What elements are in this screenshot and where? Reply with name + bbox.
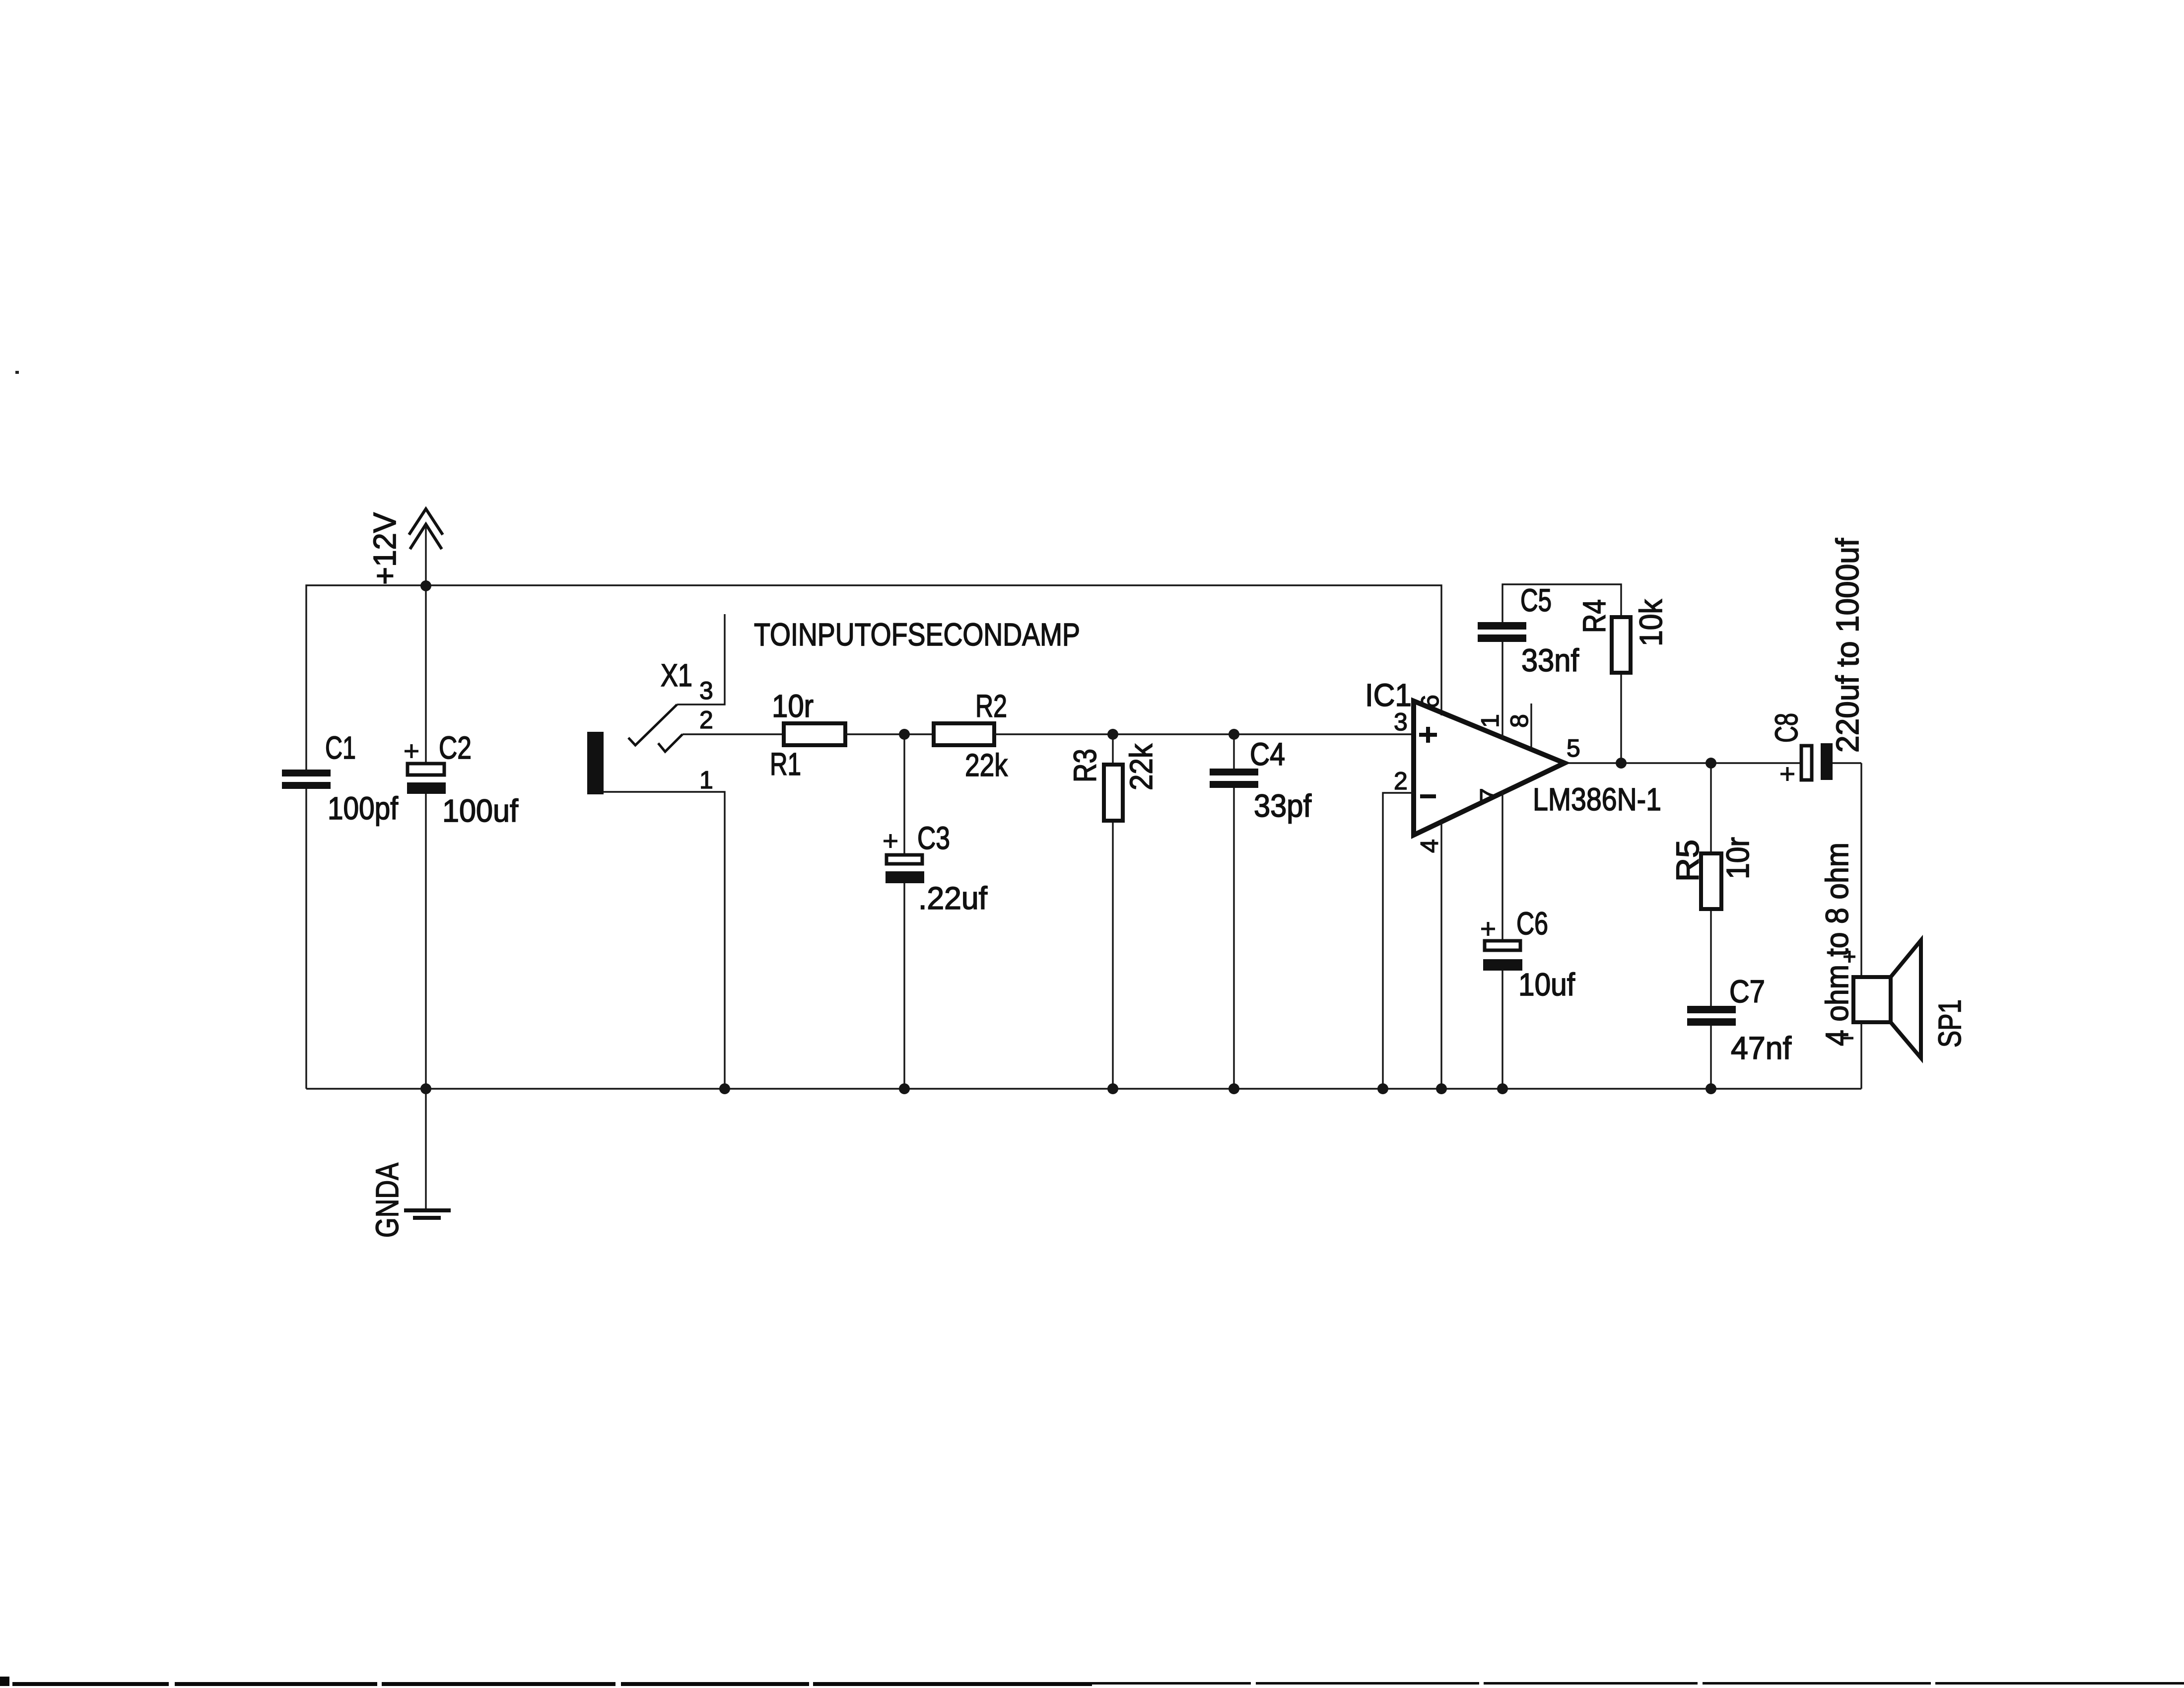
capacitor C3 bbox=[884, 734, 924, 1089]
wire bottom ground rail bbox=[306, 1088, 1861, 1089]
svg-text:R4: R4 bbox=[1576, 599, 1612, 633]
plus marker non-inverting input bbox=[1419, 727, 1437, 743]
op-amp IC1 bbox=[1414, 701, 1565, 835]
svg-text:7: 7 bbox=[1475, 788, 1503, 802]
wire R2 to IC pin3 bbox=[994, 733, 1414, 735]
svg-text:8: 8 bbox=[1505, 714, 1533, 728]
svg-text:1: 1 bbox=[699, 766, 713, 794]
wire R1 to R2 bbox=[845, 733, 934, 735]
svg-text:33pf: 33pf bbox=[1254, 788, 1311, 824]
wire to speaker bbox=[1860, 763, 1862, 977]
capacitor C4 bbox=[1210, 729, 1258, 1094]
svg-text:LM386N-1: LM386N-1 bbox=[1533, 781, 1661, 817]
junction pin2 ground bbox=[1377, 1083, 1388, 1094]
svg-text:10uf: 10uf bbox=[1518, 967, 1575, 1002]
wire GNDA stub bbox=[425, 1089, 426, 1209]
connector X1 jack bbox=[587, 732, 604, 794]
wire output pin5 bbox=[1565, 762, 1800, 764]
svg-text:100pf: 100pf bbox=[328, 790, 398, 826]
speaker SP1 bbox=[1853, 940, 1921, 1089]
junction R4 output bbox=[1616, 758, 1627, 769]
svg-text:SP1: SP1 bbox=[1932, 999, 1968, 1048]
pin 3 X1 bbox=[677, 614, 725, 704]
svg-text:GNDA: GNDA bbox=[369, 1163, 405, 1238]
svg-text:+12V: +12V bbox=[367, 512, 403, 585]
svg-text:10k: 10k bbox=[1633, 599, 1669, 646]
wire +12V top rail bbox=[306, 585, 1441, 770]
svg-text:.22uf: .22uf bbox=[918, 880, 987, 916]
svg-text:4: 4 bbox=[1416, 839, 1443, 853]
svg-text:2: 2 bbox=[699, 706, 713, 734]
svg-text:C4: C4 bbox=[1250, 736, 1285, 772]
node junction dot +12V rail bbox=[420, 580, 431, 591]
scan artifact bottom strip bbox=[0, 1677, 2184, 1686]
node junction dot C3 bbox=[899, 729, 910, 740]
resistor R5 bbox=[1701, 763, 1721, 1006]
wire pin2 to ground bbox=[1383, 793, 1414, 1089]
svg-text:22k: 22k bbox=[1123, 743, 1159, 790]
svg-text:C3: C3 bbox=[917, 820, 950, 856]
capacitor C2 bbox=[405, 585, 446, 1089]
svg-text:100uf: 100uf bbox=[442, 793, 518, 829]
resistor R2 bbox=[934, 723, 994, 745]
svg-text:TOINPUTOFSECONDAMP: TOINPUTOFSECONDAMP bbox=[754, 617, 1080, 652]
power +12V arrow bbox=[409, 509, 443, 585]
svg-text:C7: C7 bbox=[1729, 974, 1765, 1009]
minus marker inverting input bbox=[1420, 794, 1436, 798]
svg-text:5: 5 bbox=[1567, 734, 1580, 762]
resistor R3 bbox=[1104, 729, 1123, 1094]
resistor R1 bbox=[784, 723, 845, 745]
pin 8 IC1 bbox=[1530, 703, 1532, 749]
capacitor C6 bbox=[1481, 922, 1522, 1094]
svg-text:R2: R2 bbox=[975, 688, 1007, 724]
svg-text:C2: C2 bbox=[439, 730, 472, 766]
pin 7 IC1 bbox=[1501, 790, 1503, 941]
svg-text:3: 3 bbox=[1394, 708, 1408, 736]
junction C3 ground bbox=[899, 1083, 910, 1094]
resistor R4 bbox=[1612, 617, 1631, 673]
svg-text:R1: R1 bbox=[770, 746, 801, 782]
svg-text:10r: 10r bbox=[1720, 837, 1756, 879]
pin 2 X1 switch arm bbox=[658, 734, 682, 752]
svg-text:220uf to 1000uf: 220uf to 1000uf bbox=[1830, 538, 1865, 753]
svg-text:3: 3 bbox=[699, 677, 713, 704]
svg-text:R3: R3 bbox=[1067, 749, 1103, 782]
svg-text:47nf: 47nf bbox=[1731, 1030, 1791, 1066]
pin 1 IC1 bbox=[1501, 641, 1503, 740]
svg-text:4 ohm to 8 ohm: 4 ohm to 8 ohm bbox=[1819, 843, 1855, 1046]
svg-text:C6: C6 bbox=[1516, 906, 1548, 941]
ground GNDA bbox=[404, 1210, 451, 1218]
wire input signal bbox=[682, 733, 784, 735]
svg-text:C8: C8 bbox=[1769, 713, 1804, 743]
node junction dot C2 ground bbox=[420, 1083, 431, 1094]
capacitor C7 bbox=[1687, 1006, 1736, 1094]
svg-text:R5: R5 bbox=[1670, 840, 1706, 882]
junction R5 output bbox=[1706, 758, 1716, 769]
capacitor C1 bbox=[282, 770, 331, 789]
svg-text:1: 1 bbox=[1476, 714, 1504, 728]
svg-text:C5: C5 bbox=[1520, 582, 1552, 618]
minus marker speaker bbox=[1841, 1037, 1853, 1040]
capacitor C8 bbox=[1780, 743, 1861, 781]
svg-text:C1: C1 bbox=[325, 730, 356, 766]
plus marker speaker bbox=[1843, 951, 1855, 963]
switch arm X1 tip contact bbox=[628, 704, 677, 745]
svg-text:6: 6 bbox=[1416, 695, 1444, 708]
scan speck top-left bbox=[15, 371, 19, 374]
svg-text:2: 2 bbox=[1394, 767, 1408, 795]
svg-text:X1: X1 bbox=[661, 657, 692, 693]
pin 4 IC1 bbox=[1440, 821, 1442, 1089]
capacitor C5 bridge bbox=[1502, 584, 1621, 622]
svg-text:22k: 22k bbox=[965, 747, 1008, 783]
pin 1 X1 bbox=[604, 792, 725, 1089]
svg-text:10r: 10r bbox=[772, 688, 814, 724]
wire C1 bottom bbox=[305, 789, 307, 1089]
svg-text:33nf: 33nf bbox=[1521, 642, 1579, 678]
